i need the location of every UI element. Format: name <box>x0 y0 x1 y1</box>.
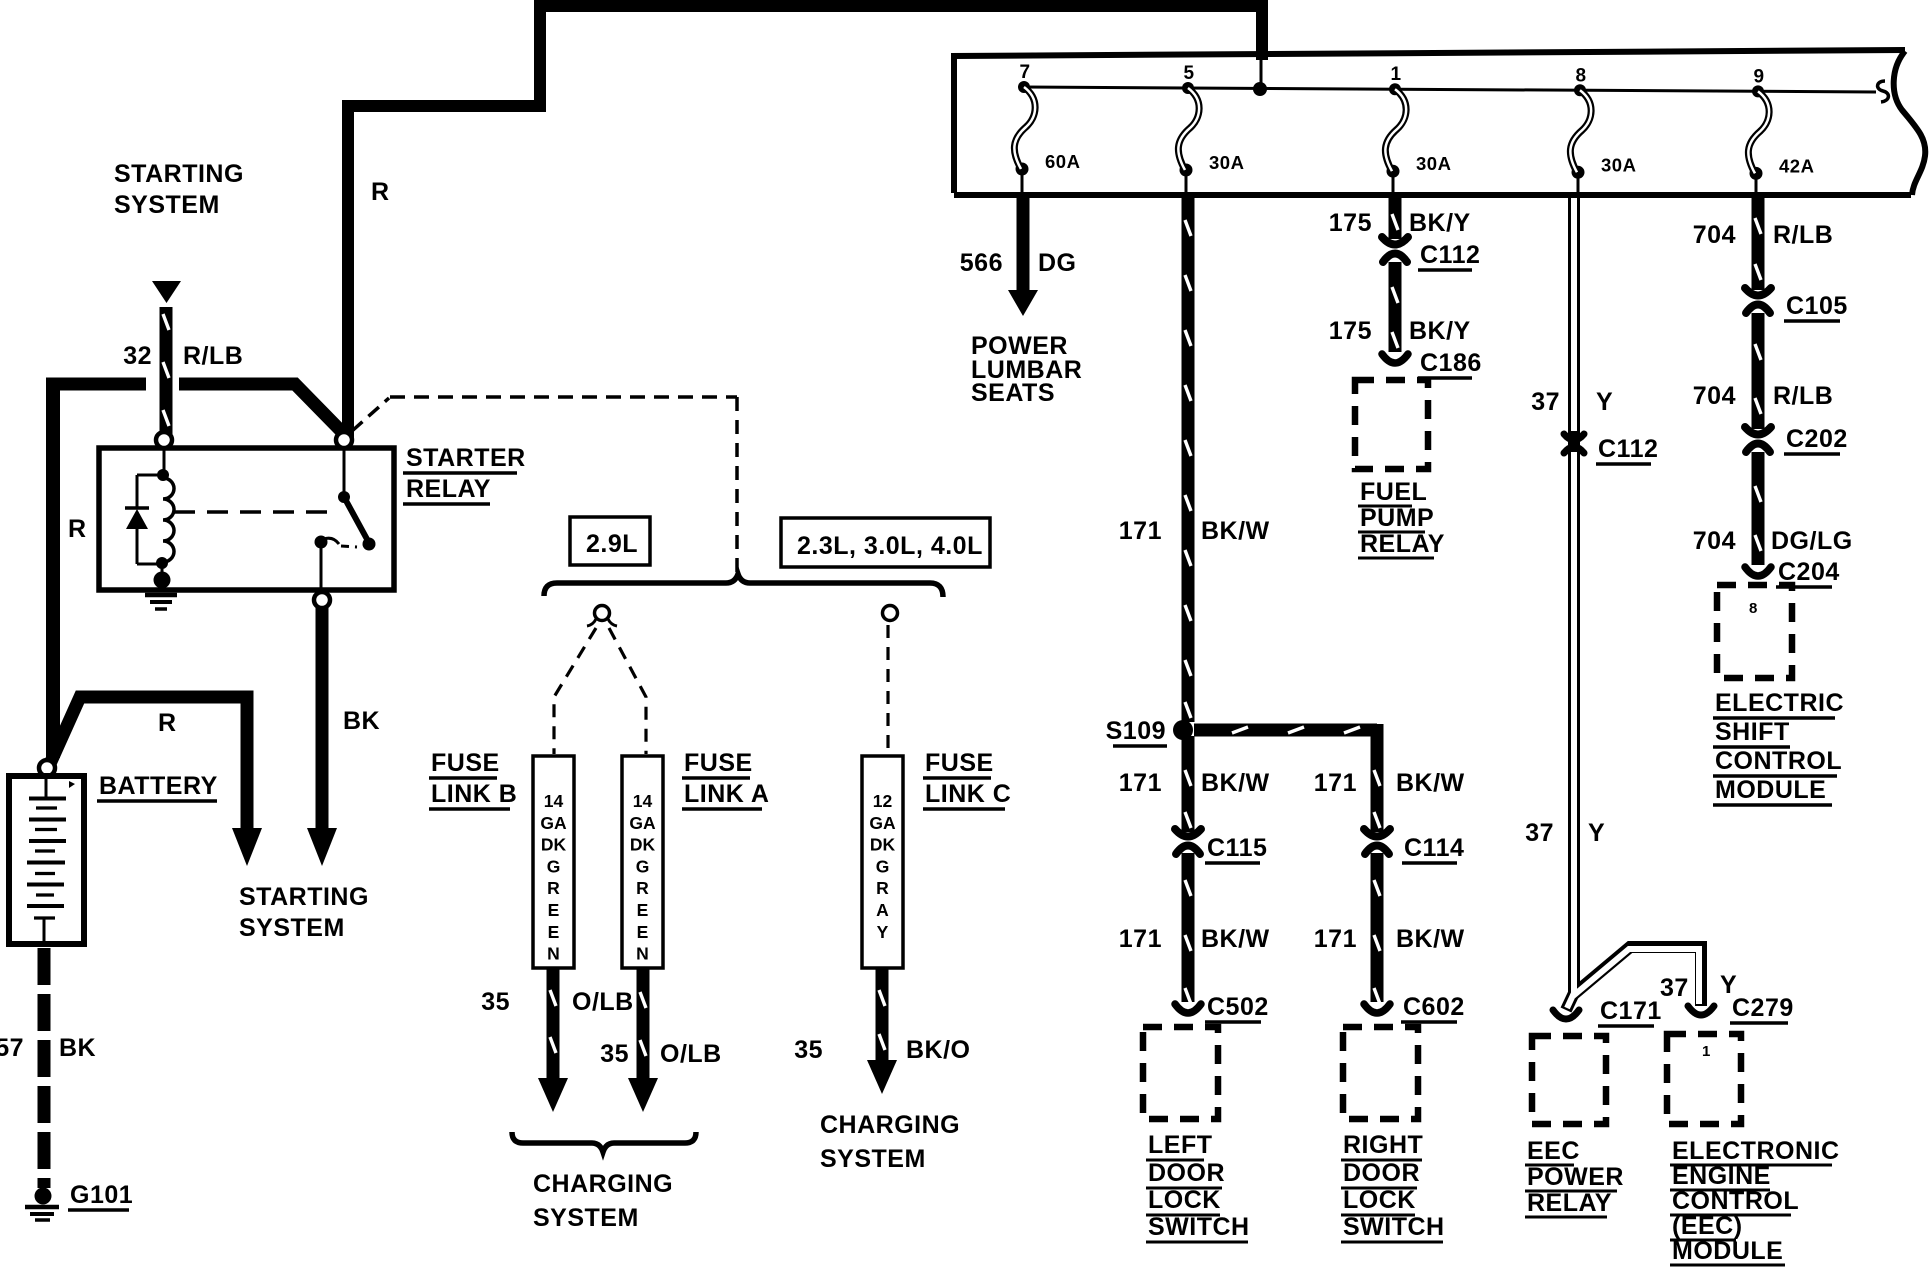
terminal top-left <box>156 432 172 448</box>
svg-text:R/LB: R/LB <box>1773 221 1833 249</box>
svg-text:R: R <box>158 709 177 737</box>
wire battery positive riser <box>46 380 60 758</box>
svg-text:RIGHT: RIGHT <box>1343 1131 1423 1159</box>
wire BK relay to starting system arrow <box>316 608 329 828</box>
svg-text:G: G <box>876 856 890 876</box>
fuse 1 30A <box>1389 83 1401 95</box>
svg-text:171: 171 <box>1314 925 1357 953</box>
svg-text:30A: 30A <box>1209 152 1244 173</box>
junction coil top <box>157 469 169 481</box>
svg-text:C114: C114 <box>1404 834 1464 862</box>
svg-text:PUMP: PUMP <box>1360 504 1434 532</box>
svg-text:Y: Y <box>1588 819 1605 847</box>
battery polarity mark <box>69 781 75 788</box>
svg-text:MODULE: MODULE <box>1715 776 1826 804</box>
fuel pump relay box <box>1355 380 1428 469</box>
svg-text:FUEL: FUEL <box>1360 478 1427 506</box>
battery box <box>9 776 84 944</box>
svg-text:42A: 42A <box>1779 155 1814 176</box>
wire 171 BK/W S109 branch to right <box>1194 724 1377 737</box>
svg-text:2.9L: 2.9L <box>586 530 638 558</box>
svg-text:BK/W: BK/W <box>1201 925 1270 953</box>
electronic engine control module box <box>1667 1034 1741 1124</box>
svg-text:32: 32 <box>123 342 152 370</box>
svg-text:E: E <box>637 900 649 920</box>
svg-text:EEC: EEC <box>1527 1137 1580 1165</box>
svg-text:R: R <box>371 178 390 206</box>
svg-text:35: 35 <box>481 988 510 1016</box>
splice circle for fuse link C <box>883 606 898 621</box>
connector C202 <box>1751 430 1765 450</box>
svg-text:DG: DG <box>1038 249 1077 277</box>
svg-text:G101: G101 <box>70 1181 133 1209</box>
svg-text:ELECTRIC: ELECTRIC <box>1715 689 1844 717</box>
dashed lead to fuse link A <box>609 628 646 754</box>
wire 566 DG to power lumbar seats <box>1017 197 1030 292</box>
svg-text:BK: BK <box>343 707 380 735</box>
wire 171 BK/W left branch to C115 <box>1182 736 1195 832</box>
svg-text:BATTERY: BATTERY <box>99 772 218 800</box>
svg-text:GA: GA <box>629 813 656 833</box>
svg-text:SWITCH: SWITCH <box>1148 1213 1250 1241</box>
brace over fuse links <box>544 574 943 597</box>
fuse 9 42A <box>1752 85 1764 97</box>
fuse 5 30A <box>1182 82 1194 94</box>
battery plates <box>45 779 48 797</box>
svg-text:O/LB: O/LB <box>660 1040 722 1068</box>
fuse panel torn right edge <box>1894 51 1926 195</box>
svg-text:14: 14 <box>633 791 653 811</box>
svg-text:POWER: POWER <box>1527 1163 1624 1191</box>
svg-text:R: R <box>876 878 889 898</box>
connector C204 <box>1745 567 1771 576</box>
svg-text:175: 175 <box>1329 209 1372 237</box>
wire R main feed from top to fuse box and starter relay <box>348 6 1262 438</box>
bus wire inside fuse box <box>1024 87 1876 92</box>
starter relay box <box>99 448 394 590</box>
svg-text:ENGINE: ENGINE <box>1672 1162 1771 1190</box>
svg-text:171: 171 <box>1314 769 1357 797</box>
svg-text:C112: C112 <box>1420 241 1480 269</box>
wire R battery to starting system arrow <box>49 697 247 828</box>
connector C186 <box>1382 354 1408 363</box>
svg-text:GA: GA <box>540 813 567 833</box>
svg-text:LINK C: LINK C <box>925 780 1011 808</box>
svg-text:LEFT: LEFT <box>1148 1131 1213 1159</box>
svg-text:35: 35 <box>600 1040 629 1068</box>
svg-text:FUSE: FUSE <box>431 749 500 777</box>
wire 35 BK/O fuse link C to charging system <box>876 968 889 1062</box>
svg-text:60A: 60A <box>1045 151 1080 172</box>
svg-text:O/LB: O/LB <box>572 988 634 1016</box>
svg-text:57: 57 <box>0 1034 24 1062</box>
svg-text:C279: C279 <box>1732 994 1794 1022</box>
svg-text:C112: C112 <box>1598 435 1658 463</box>
svg-text:C115: C115 <box>1207 834 1267 862</box>
fuse 7 60A <box>1018 81 1030 93</box>
wire R battery to starter relay (thick bar) <box>46 378 146 391</box>
svg-text:12: 12 <box>873 791 893 811</box>
svg-text:1: 1 <box>1390 64 1401 85</box>
wire 171 BK/W right branch to C114 <box>1371 724 1384 832</box>
svg-text:704: 704 <box>1693 527 1736 555</box>
dashed lead to fuse link C <box>886 625 889 754</box>
relay switch fixed lead <box>343 448 346 494</box>
dashed line relay to engine options <box>352 398 389 431</box>
wire 35 O/LB fuse link B to charging system <box>547 968 560 1080</box>
wire 704 R/LB fuse 9 to C105 <box>1752 197 1765 290</box>
relay switch lower contact <box>315 536 328 549</box>
svg-text:37: 37 <box>1525 819 1554 847</box>
wire 32 R/LB to starter relay <box>160 307 173 434</box>
svg-text:30A: 30A <box>1601 154 1636 175</box>
dashed lead to fuse link B <box>554 628 596 754</box>
relay coil lead <box>163 448 166 472</box>
svg-text:SYSTEM: SYSTEM <box>239 914 345 942</box>
svg-text:G: G <box>547 856 561 876</box>
connector C112 <box>1388 240 1402 260</box>
connector C602 <box>1364 1004 1390 1013</box>
svg-text:BK/W: BK/W <box>1396 925 1465 953</box>
svg-text:C602: C602 <box>1403 993 1465 1021</box>
svg-text:C186: C186 <box>1420 349 1482 377</box>
svg-text:RELAY: RELAY <box>1527 1189 1612 1217</box>
svg-text:CONTROL: CONTROL <box>1672 1187 1799 1215</box>
terminal top-right <box>336 432 352 448</box>
svg-text:R: R <box>68 515 87 543</box>
svg-text:BK/W: BK/W <box>1201 517 1270 545</box>
wire 175 BK/Y C112 to C186 <box>1389 262 1402 352</box>
svg-text:171: 171 <box>1119 925 1162 953</box>
diode across coil <box>137 474 163 477</box>
svg-text:STARTING: STARTING <box>239 883 369 911</box>
relay switch arm <box>344 497 368 541</box>
svg-text:Y: Y <box>877 922 889 942</box>
svg-text:DK: DK <box>541 835 567 855</box>
svg-text:R: R <box>636 878 649 898</box>
svg-text:SHIFT: SHIFT <box>1715 718 1790 746</box>
wire 175 BK/Y fuse 1 to C112 <box>1389 197 1402 239</box>
wire 171 BK/W from fuse 5 to S109 <box>1182 197 1195 722</box>
svg-text:1: 1 <box>1702 1043 1711 1060</box>
svg-text:CONTROL: CONTROL <box>1715 747 1842 775</box>
electric shift control module box <box>1717 585 1792 678</box>
svg-text:SYSTEM: SYSTEM <box>114 191 220 219</box>
svg-text:R: R <box>547 878 560 898</box>
svg-text:MODULE: MODULE <box>1672 1237 1783 1265</box>
svg-text:Y: Y <box>1596 388 1613 416</box>
svg-text:175: 175 <box>1329 317 1372 345</box>
connector C502 <box>1175 1004 1201 1013</box>
svg-text:171: 171 <box>1119 769 1162 797</box>
splice S109 <box>1173 720 1193 740</box>
svg-text:A: A <box>876 900 889 920</box>
svg-text:BK: BK <box>59 1034 96 1062</box>
svg-text:E: E <box>548 922 560 942</box>
svg-text:37: 37 <box>1660 974 1689 1002</box>
svg-text:R/LB: R/LB <box>183 342 243 370</box>
relay coil <box>163 478 174 562</box>
battery terminal <box>39 760 55 776</box>
svg-text:ELECTRONIC: ELECTRONIC <box>1672 1137 1840 1165</box>
svg-text:171: 171 <box>1119 517 1162 545</box>
svg-text:G: G <box>636 856 650 876</box>
svg-text:E: E <box>637 922 649 942</box>
ground G101 <box>35 1188 52 1205</box>
connector C105 <box>1751 291 1765 311</box>
junction feed to bus <box>1260 58 1263 89</box>
svg-text:LINK B: LINK B <box>431 780 517 808</box>
svg-text:BK/W: BK/W <box>1396 769 1465 797</box>
svg-text:DG/LG: DG/LG <box>1771 527 1853 555</box>
arrow from starting system <box>152 281 181 303</box>
svg-text:35: 35 <box>794 1036 823 1064</box>
svg-text:5: 5 <box>1183 63 1194 84</box>
connector C115 <box>1181 832 1195 852</box>
svg-text:SWITCH: SWITCH <box>1343 1213 1445 1241</box>
svg-text:FUSE: FUSE <box>925 749 994 777</box>
terminal bottom <box>314 592 330 608</box>
svg-text:DK: DK <box>630 835 656 855</box>
svg-text:SYSTEM: SYSTEM <box>533 1204 639 1232</box>
svg-text:BK/Y: BK/Y <box>1409 317 1471 345</box>
svg-text:566: 566 <box>960 249 1003 277</box>
relay internal ground <box>161 566 164 584</box>
svg-text:C105: C105 <box>1786 292 1848 320</box>
node 2.9L option box <box>570 517 650 565</box>
svg-text:SYSTEM: SYSTEM <box>820 1145 926 1173</box>
wire 171 BK/W C115 to C502 <box>1182 853 1195 1002</box>
svg-text:7: 7 <box>1019 62 1030 83</box>
svg-text:BK/Y: BK/Y <box>1409 209 1471 237</box>
svg-text:C171: C171 <box>1600 997 1662 1025</box>
relay mechanical linkage (dashed) <box>174 510 338 514</box>
wire 704 DG/LG C202 to C204 <box>1752 452 1765 565</box>
svg-text:LOCK: LOCK <box>1343 1186 1416 1214</box>
svg-text:704: 704 <box>1693 221 1736 249</box>
EEC power relay box <box>1532 1036 1606 1124</box>
svg-text:37: 37 <box>1531 388 1560 416</box>
fuse link B <box>533 756 574 968</box>
svg-text:RELAY: RELAY <box>1360 530 1445 558</box>
svg-text:CHARGING: CHARGING <box>820 1111 960 1139</box>
svg-text:9: 9 <box>1753 66 1764 87</box>
svg-text:LOCK: LOCK <box>1148 1186 1221 1214</box>
wire 704 R/LB C105 to C202 <box>1752 313 1765 429</box>
svg-text:8: 8 <box>1575 65 1586 86</box>
svg-text:SEATS: SEATS <box>971 379 1055 407</box>
svg-text:N: N <box>547 944 560 964</box>
wire 37 Y from fuse 8 (hollow wire) <box>1566 196 1574 1010</box>
svg-text:DK: DK <box>870 835 896 855</box>
svg-text:R/LB: R/LB <box>1773 382 1833 410</box>
connector C279 <box>1688 1006 1714 1015</box>
junction coil bottom <box>156 557 168 569</box>
svg-text:DOOR: DOOR <box>1148 1159 1225 1187</box>
svg-text:14: 14 <box>544 791 564 811</box>
svg-text:2.3L, 3.0L, 4.0L: 2.3L, 3.0L, 4.0L <box>797 532 983 560</box>
svg-text:DOOR: DOOR <box>1343 1159 1420 1187</box>
wire 171 BK/W C114 to C602 <box>1371 853 1384 1002</box>
wire 35 O/LB fuse link A to charging system <box>637 968 650 1080</box>
right door lock switch box <box>1343 1027 1418 1119</box>
svg-text:N: N <box>636 944 649 964</box>
svg-text:FUSE: FUSE <box>684 749 753 777</box>
svg-text:CHARGING: CHARGING <box>533 1170 673 1198</box>
svg-text:GA: GA <box>869 813 896 833</box>
svg-text:LINK A: LINK A <box>684 780 769 808</box>
fuse panel box <box>954 50 1905 193</box>
svg-text:30A: 30A <box>1416 153 1451 174</box>
svg-text:(EEC): (EEC) <box>1672 1212 1743 1240</box>
svg-text:704: 704 <box>1693 382 1736 410</box>
svg-text:STARTING: STARTING <box>114 160 244 188</box>
svg-text:BK/O: BK/O <box>906 1036 971 1064</box>
fuse 8 30A <box>1574 84 1586 96</box>
charging system bracket <box>512 1132 696 1152</box>
node 2.3L,3.0L,4.0L option box <box>781 518 990 567</box>
fuse link A <box>622 756 663 968</box>
wire 57 BK battery to ground (dashed) <box>38 948 51 1188</box>
connector C114 <box>1370 832 1384 852</box>
svg-text:STARTER: STARTER <box>406 444 526 472</box>
connector C171 <box>1553 1010 1579 1019</box>
splice circle for fuse links A,B <box>595 606 610 621</box>
connector C112 on wire 37 <box>1564 434 1584 440</box>
svg-text:RELAY: RELAY <box>406 475 491 503</box>
bus wire break squiggle <box>1878 81 1889 102</box>
svg-text:C502: C502 <box>1207 993 1269 1021</box>
svg-text:C202: C202 <box>1786 425 1848 453</box>
left door lock switch box <box>1143 1027 1218 1119</box>
svg-text:S109: S109 <box>1106 717 1166 745</box>
fuse link C <box>862 756 903 968</box>
svg-text:8: 8 <box>1749 600 1758 617</box>
svg-text:BK/W: BK/W <box>1201 769 1270 797</box>
svg-text:E: E <box>548 900 560 920</box>
